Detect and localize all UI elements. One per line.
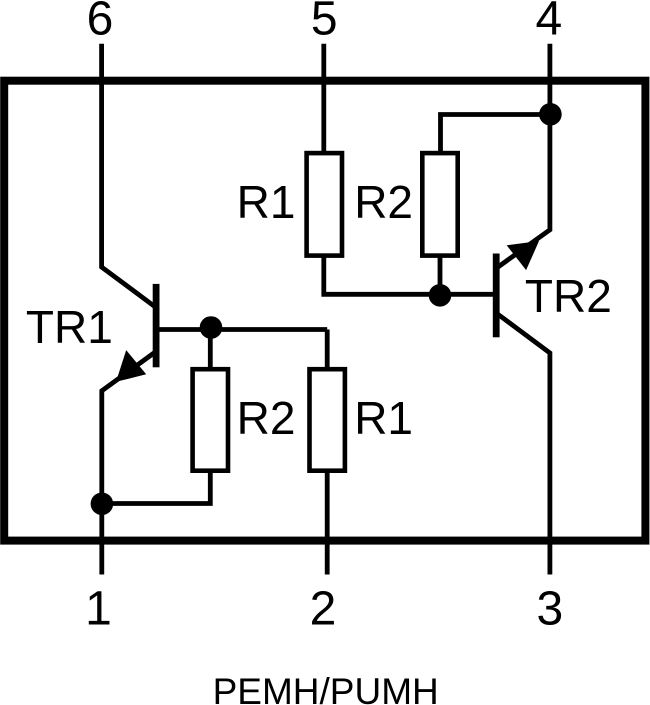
- svg-text:6: 6: [87, 0, 114, 45]
- wire R2 top connector (bottom-left): [208, 330, 213, 371]
- wire R1 bottom to TR2 base: [324, 254, 496, 294]
- svg-text:R2: R2: [354, 176, 413, 228]
- svg-text:2: 2: [310, 583, 337, 636]
- package outline: [4, 81, 645, 541]
- svg-text:4: 4: [535, 0, 562, 45]
- transistor TR2: [493, 241, 539, 337]
- wire pin1 lead: [99, 504, 104, 575]
- resistor R1 (bottom-right): [310, 369, 345, 471]
- wire TR2 collector to pin3 lead: [496, 313, 550, 575]
- node base junction TR1: [200, 316, 223, 339]
- svg-text:PEMH/PUMH: PEMH/PUMH: [213, 671, 439, 705]
- wire pin4 lead to TR2 emitter: [496, 44, 550, 268]
- svg-text:R2: R2: [237, 392, 296, 444]
- resistor R2 (bottom-left): [193, 369, 228, 471]
- node emitter junction (pin1): [91, 493, 114, 516]
- svg-text:R1: R1: [354, 392, 413, 444]
- wire emitter to bottom rail: [102, 470, 211, 504]
- node collector junction (pin4): [539, 103, 562, 126]
- wire TR1 base: [156, 327, 327, 332]
- svg-text:TR2: TR2: [525, 270, 612, 322]
- resistor R2 (top-right): [422, 153, 457, 256]
- wire pin5 lead to R1 top: [321, 44, 326, 155]
- wire pin6 lead to TR1 collector: [102, 44, 156, 308]
- wire R1 top connector (bottom-right): [325, 330, 330, 371]
- resistor R1 (top-left): [307, 153, 342, 256]
- svg-text:R1: R1: [237, 176, 296, 228]
- node base junction TR2: [429, 284, 452, 307]
- wire R2 bottom connector (top-right): [438, 255, 443, 294]
- svg-text:TR1: TR1: [26, 301, 113, 353]
- transistor TR1: [102, 284, 160, 505]
- svg-text:1: 1: [85, 583, 112, 636]
- svg-text:3: 3: [537, 583, 564, 636]
- wire pin2 lead: [325, 470, 330, 575]
- wire R2 top to pin4 column: [441, 115, 550, 155]
- svg-text:5: 5: [311, 0, 338, 45]
